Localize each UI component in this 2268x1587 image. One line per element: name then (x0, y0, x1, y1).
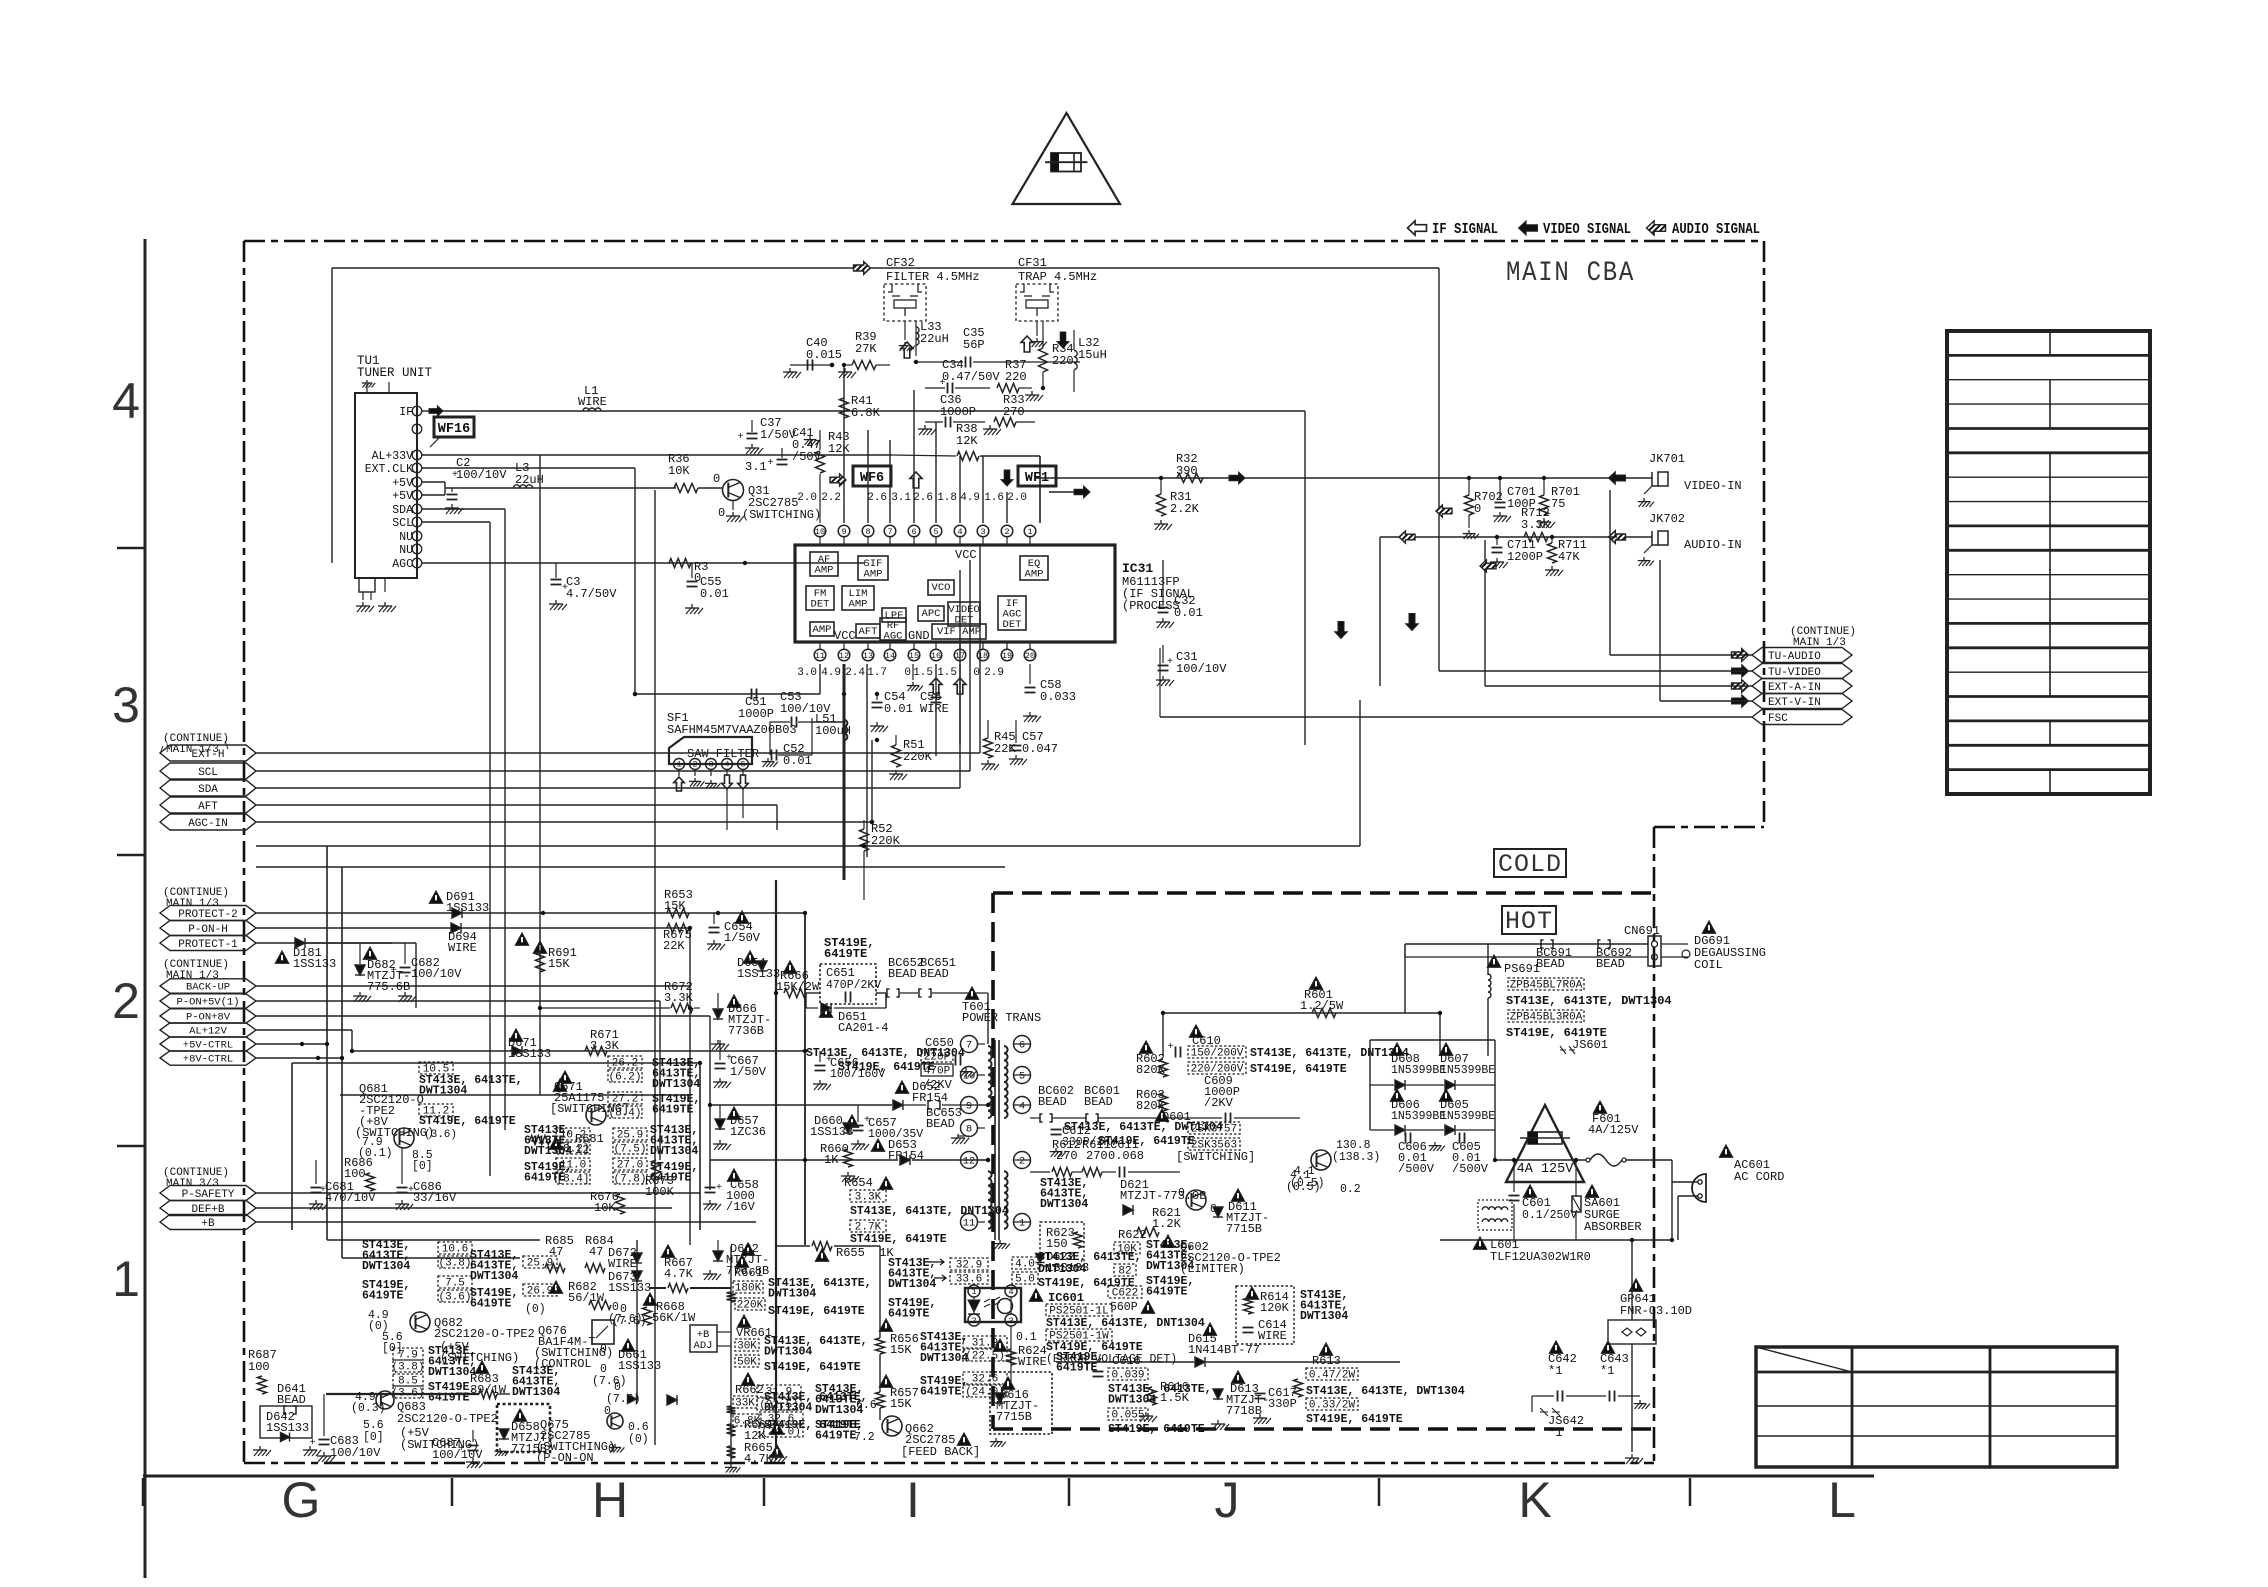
svg-text:6419TE: 6419TE (815, 1430, 857, 1443)
svg-text:4: 4 (1008, 1287, 1013, 1297)
svg-text:32.6: 32.6 (972, 1374, 998, 1386)
svg-text:SCL: SCL (198, 767, 218, 779)
svg-text:BEAD: BEAD (1536, 957, 1565, 971)
svg-text:2.9: 2.9 (984, 667, 1004, 679)
svg-text:+: + (940, 378, 946, 389)
svg-text:+5V: +5V (392, 477, 413, 490)
svg-text:180K: 180K (735, 1283, 762, 1295)
svg-text:ST413E, 6413TE, DWT1304: ST413E, 6413TE, DWT1304 (1306, 1385, 1465, 1398)
svg-text:COIL: COIL (1694, 958, 1723, 972)
svg-text:CF31: CF31 (1018, 256, 1047, 270)
svg-text:470/10V: 470/10V (325, 1191, 376, 1205)
svg-text:DET: DET (811, 599, 830, 611)
svg-text:0.047: 0.047 (1022, 742, 1058, 756)
svg-text:C651: C651 (826, 966, 855, 980)
svg-text:(3.8): (3.8) (391, 1362, 424, 1374)
svg-text:2: 2 (971, 1316, 976, 1326)
svg-text:(0): (0) (525, 1303, 546, 1316)
svg-text:0.33/2W: 0.33/2W (1309, 1400, 1356, 1412)
svg-text:DWT1304: DWT1304 (652, 1078, 700, 1091)
svg-text:16: 16 (931, 651, 941, 661)
svg-text:0.033: 0.033 (1040, 690, 1076, 704)
svg-text:(3.6): (3.6) (438, 1292, 471, 1304)
svg-text:(3.6): (3.6) (424, 1129, 457, 1141)
svg-text:JK701: JK701 (1649, 452, 1685, 466)
svg-text:3.1: 3.1 (745, 460, 767, 474)
svg-text:1: 1 (112, 1251, 140, 1307)
svg-text:47K: 47K (1558, 550, 1580, 564)
svg-text:11: 11 (815, 651, 825, 661)
svg-text:DWT1304: DWT1304 (419, 1085, 467, 1098)
svg-text:15K: 15K (548, 957, 570, 971)
svg-text:IF: IF (399, 406, 413, 419)
svg-text:56K/1W: 56K/1W (652, 1311, 696, 1325)
svg-text:22K: 22K (994, 742, 1016, 756)
svg-text:0.2: 0.2 (1340, 1183, 1361, 1196)
svg-text:SAFHM45M7VAAZ00B03: SAFHM45M7VAAZ00B03 (667, 723, 797, 737)
svg-text:5: 5 (741, 761, 746, 770)
svg-text:6419TE: 6419TE (1146, 1286, 1188, 1299)
svg-text:AMP: AMP (864, 569, 883, 581)
svg-text:DWT1304: DWT1304 (362, 1260, 410, 1273)
svg-text:VIDEO SIGNAL: VIDEO SIGNAL (1543, 222, 1631, 238)
svg-text:(6.2): (6.2) (608, 1072, 641, 1084)
svg-text:+: + (310, 1438, 316, 1449)
svg-text:33K: 33K (735, 1398, 755, 1410)
svg-text:R655 1K: R655 1K (836, 1246, 894, 1260)
svg-text:+B: +B (201, 1218, 215, 1230)
svg-text:15: 15 (909, 651, 919, 661)
svg-text:2.0: 2.0 (1007, 492, 1027, 504)
svg-text:1N414BT-77: 1N414BT-77 (1188, 1343, 1260, 1357)
svg-text:1SS133: 1SS133 (293, 957, 336, 971)
svg-text:VCC: VCC (955, 548, 977, 562)
svg-text:AC CORD: AC CORD (1734, 1170, 1784, 1184)
svg-text:6419TE: 6419TE (362, 1290, 404, 1303)
svg-text:+5V-CTRL: +5V-CTRL (183, 1040, 233, 1052)
svg-text:AUDIO SIGNAL: AUDIO SIGNAL (1672, 222, 1760, 238)
svg-text:TU-AUDIO: TU-AUDIO (1768, 651, 1821, 663)
svg-text:6.8K: 6.8K (851, 406, 881, 420)
svg-text:1N5399BE: 1N5399BE (1440, 1064, 1495, 1077)
svg-text:4.7K: 4.7K (744, 1452, 774, 1466)
svg-text:1: 1 (1027, 527, 1032, 537)
svg-text:AMP: AMP (849, 599, 868, 611)
svg-text:ST413E, 6413TE, DNT1304: ST413E, 6413TE, DNT1304 (850, 1205, 1009, 1218)
svg-text:15K: 15K (890, 1397, 912, 1411)
svg-text:*1: *1 (1600, 1364, 1614, 1378)
svg-text:3.1: 3.1 (891, 492, 911, 504)
svg-text:P-ON+8V: P-ON+8V (186, 1012, 231, 1024)
svg-text:DWT1304: DWT1304 (920, 1352, 968, 1365)
svg-text:POWER TRANS: POWER TRANS (962, 1011, 1041, 1025)
svg-text:4.9: 4.9 (960, 492, 980, 504)
svg-text:ABSORBER: ABSORBER (1584, 1220, 1642, 1234)
svg-text:2.0: 2.0 (797, 492, 817, 504)
svg-text:DWT1304: DWT1304 (650, 1145, 698, 1158)
svg-text:(SWITCHING): (SWITCHING) (742, 508, 821, 522)
svg-text:1N5399BE: 1N5399BE (1391, 1110, 1446, 1123)
svg-text:WIRE: WIRE (1018, 1355, 1047, 1369)
svg-text:1: 1 (971, 1287, 976, 1297)
svg-text:(0): (0) (628, 1433, 649, 1446)
svg-text:DWT1304: DWT1304 (470, 1270, 518, 1283)
svg-text:7.5: 7.5 (445, 1278, 465, 1290)
svg-text:ADJ: ADJ (694, 1340, 713, 1352)
svg-text:WIRE: WIRE (1258, 1329, 1287, 1343)
svg-text:3.0: 3.0 (797, 667, 817, 679)
svg-text:1SS133: 1SS133 (608, 1281, 651, 1295)
svg-text:(3.8): (3.8) (438, 1258, 471, 1270)
svg-text:BEAD: BEAD (1084, 1095, 1113, 1109)
svg-text:25.9: 25.9 (617, 1130, 643, 1142)
svg-text:100/160V: 100/160V (830, 1068, 885, 1081)
svg-text:1.5: 1.5 (913, 667, 933, 679)
svg-text:WF16: WF16 (438, 422, 470, 437)
svg-text:/500V: /500V (1398, 1162, 1435, 1176)
svg-text:(0.3): (0.3) (351, 1402, 386, 1415)
svg-text:0: 0 (1474, 502, 1481, 516)
svg-text:0.01: 0.01 (884, 702, 913, 716)
svg-text:270: 270 (1003, 405, 1025, 419)
svg-text:0.01: 0.01 (1174, 606, 1203, 620)
svg-text:1.5: 1.5 (937, 667, 957, 679)
svg-text:100K: 100K (645, 1185, 675, 1199)
svg-text:1: 1 (1019, 1218, 1025, 1230)
svg-text:(24.0): (24.0) (761, 1427, 801, 1439)
svg-text:EXT-A-IN: EXT-A-IN (1768, 682, 1821, 694)
svg-text:VIF AMP: VIF AMP (937, 626, 981, 638)
svg-text:DWT1304: DWT1304 (524, 1145, 572, 1158)
svg-text:R654: R654 (844, 1176, 873, 1190)
svg-text:7: 7 (966, 1040, 972, 1052)
svg-text:EXT.CLK: EXT.CLK (365, 463, 413, 476)
svg-text:DWT1304: DWT1304 (512, 1386, 560, 1399)
svg-text:1.2K: 1.2K (1152, 1217, 1182, 1231)
svg-text:BEAD: BEAD (1038, 1095, 1067, 1109)
svg-text:IC601: IC601 (1048, 1291, 1084, 1305)
svg-text:220: 220 (1052, 354, 1074, 368)
svg-text:7736B: 7736B (728, 1024, 764, 1038)
svg-text:560P: 560P (1110, 1301, 1138, 1314)
svg-text:R613: R613 (1312, 1354, 1341, 1368)
svg-text:/16V: /16V (726, 1200, 756, 1214)
svg-text:6419TE: 6419TE (824, 947, 867, 961)
svg-text:33/16V: 33/16V (413, 1191, 457, 1205)
svg-text:4.7/50V: 4.7/50V (566, 587, 617, 601)
svg-text:32.6: 32.6 (768, 1414, 794, 1426)
svg-text:G: G (282, 1472, 321, 1528)
svg-text:9: 9 (966, 1101, 972, 1113)
svg-text:12K: 12K (956, 434, 978, 448)
svg-text:JK702: JK702 (1649, 512, 1685, 526)
svg-text:(7.6): (7.6) (606, 1393, 641, 1406)
svg-text:(7.5): (7.5) (613, 1144, 646, 1156)
svg-text:2SC2120-O-TPE2: 2SC2120-O-TPE2 (397, 1412, 498, 1426)
svg-text:0: 0 (973, 667, 980, 679)
svg-text:COLD: COLD (1498, 850, 1562, 879)
svg-text:PROTECT-2: PROTECT-2 (178, 909, 237, 921)
svg-text:FSC: FSC (1768, 713, 1788, 725)
svg-text:[SWITCHING]: [SWITCHING] (1176, 1150, 1255, 1164)
svg-text:15K: 15K (890, 1343, 912, 1357)
svg-text:P-ON-H: P-ON-H (188, 924, 228, 936)
svg-text:AFT: AFT (198, 801, 218, 813)
svg-text:SDA: SDA (392, 504, 413, 517)
svg-text:4.9: 4.9 (821, 667, 841, 679)
svg-text:470P: 470P (924, 1066, 951, 1078)
svg-text:ST419E, 6419TE: ST419E, 6419TE (1250, 1063, 1347, 1076)
svg-text:4.7K: 4.7K (664, 1267, 694, 1281)
svg-text:ST419E, 6419TE: ST419E, 6419TE (768, 1305, 865, 1318)
svg-text:11: 11 (963, 1218, 976, 1230)
svg-text:/2KV: /2KV (1204, 1096, 1234, 1110)
svg-text:13: 13 (863, 651, 873, 661)
svg-text:(22.5): (22.5) (965, 1351, 1005, 1363)
svg-text:J: J (1215, 1472, 1240, 1528)
svg-text:C601: C601 (1522, 1196, 1551, 1210)
svg-text:100/10V: 100/10V (456, 468, 507, 482)
svg-text:(7.6): (7.6) (592, 1375, 627, 1388)
svg-text:1SS133: 1SS133 (1046, 1261, 1089, 1275)
svg-text:R661: R661 (734, 1266, 763, 1280)
svg-text:100/10V: 100/10V (411, 967, 462, 981)
svg-text:150: 150 (1046, 1237, 1068, 1251)
svg-text:1200P: 1200P (1507, 550, 1543, 564)
svg-text:0.01: 0.01 (783, 754, 812, 768)
svg-text:1N5399BE: 1N5399BE (1391, 1064, 1446, 1077)
svg-text:(PROCESS: (PROCESS (1122, 599, 1180, 613)
svg-text:AMP: AMP (813, 624, 832, 636)
svg-text:(P-ON-ON: (P-ON-ON (536, 1451, 594, 1465)
svg-text:P-SAFETY: P-SAFETY (182, 1189, 235, 1201)
svg-text:ST419E, 6419TE: ST419E, 6419TE (419, 1115, 516, 1128)
svg-text:ST413E, 6413TE, DWT1304: ST413E, 6413TE, DWT1304 (1506, 994, 1672, 1008)
svg-text:1SS133: 1SS133 (266, 1421, 309, 1435)
svg-text:TUNER UNIT: TUNER UNIT (357, 366, 433, 380)
svg-text:0.47/50V: 0.47/50V (942, 370, 1000, 384)
svg-text:AFT: AFT (859, 626, 878, 638)
svg-text:(7.8): (7.8) (613, 1174, 646, 1186)
svg-text:1.7: 1.7 (867, 667, 887, 679)
svg-text:7: 7 (887, 527, 892, 537)
svg-text:0: 0 (600, 1343, 607, 1356)
svg-text:DWT1304: DWT1304 (768, 1288, 816, 1301)
svg-text:20: 20 (1025, 651, 1035, 661)
svg-text:PS2501-1L: PS2501-1L (1049, 1306, 1108, 1318)
svg-text:33.6: 33.6 (956, 1274, 982, 1286)
svg-text:+: + (716, 1183, 722, 1194)
svg-text:2.6: 2.6 (913, 492, 933, 504)
svg-text:1.8: 1.8 (937, 492, 957, 504)
svg-text:C616: C616 (1112, 1354, 1141, 1368)
svg-text:0.039: 0.039 (1111, 1370, 1144, 1382)
svg-text:100/10V: 100/10V (330, 1446, 381, 1460)
svg-text:330P: 330P (1268, 1397, 1297, 1411)
svg-text:FNR-G3.10D: FNR-G3.10D (1620, 1304, 1692, 1318)
svg-text:0.1: 0.1 (1016, 1331, 1037, 1344)
svg-text:0: 0 (1178, 1187, 1185, 1200)
svg-text:+: + (738, 432, 744, 443)
svg-text:DWT1304: DWT1304 (888, 1278, 936, 1291)
svg-text:32.9: 32.9 (956, 1260, 982, 1272)
svg-text:4: 4 (1019, 1101, 1025, 1113)
svg-text:3: 3 (112, 677, 140, 733)
svg-text:2: 2 (1019, 1156, 1025, 1168)
svg-text:DWT1304: DWT1304 (764, 1346, 812, 1359)
svg-text:4: 4 (957, 527, 962, 537)
svg-text:CA201-4: CA201-4 (838, 1021, 888, 1035)
svg-text:220K: 220K (903, 750, 933, 764)
svg-text:/500V: /500V (1452, 1162, 1489, 1176)
svg-text:8: 8 (966, 1124, 972, 1136)
svg-text:1: 1 (677, 761, 682, 770)
svg-text:+: + (1168, 1042, 1174, 1053)
svg-text:WIRE: WIRE (920, 702, 949, 716)
svg-text:47: 47 (589, 1245, 603, 1259)
svg-text:ST413E, 6413TE, DNT1304: ST413E, 6413TE, DNT1304 (1250, 1047, 1409, 1060)
svg-text:WF6: WF6 (860, 471, 884, 486)
svg-text:4: 4 (112, 373, 140, 429)
svg-text:82: 82 (1118, 1266, 1131, 1278)
svg-text:6: 6 (1019, 1040, 1025, 1052)
svg-text:HOT: HOT (1505, 907, 1553, 936)
svg-text:470P/2KV: 470P/2KV (826, 979, 881, 992)
svg-text:1SS133: 1SS133 (737, 967, 780, 981)
svg-text:2: 2 (112, 973, 140, 1029)
svg-text:1.6: 1.6 (984, 492, 1004, 504)
svg-text:0.01: 0.01 (700, 587, 729, 601)
svg-text:BEAD: BEAD (1596, 957, 1625, 971)
svg-text:75: 75 (1551, 497, 1565, 511)
svg-text:2: 2 (693, 761, 698, 770)
svg-text:15uH: 15uH (1078, 348, 1107, 362)
svg-text:0: 0 (604, 1405, 611, 1418)
svg-text:5.0: 5.0 (1015, 1274, 1035, 1286)
svg-text:BEAD: BEAD (920, 967, 949, 981)
svg-text:ST419E, 6419TE: ST419E, 6419TE (764, 1361, 861, 1374)
svg-text:K: K (1518, 1472, 1551, 1528)
svg-text:2SC2120-O-TPE2: 2SC2120-O-TPE2 (434, 1327, 535, 1341)
svg-text:6419TE: 6419TE (470, 1298, 512, 1311)
svg-text:12: 12 (839, 651, 849, 661)
svg-text:AMP: AMP (815, 565, 834, 577)
svg-text:6419TE: 6419TE (920, 1386, 962, 1399)
svg-text:(0.5): (0.5) (1286, 1181, 1321, 1194)
svg-text:1/50V: 1/50V (724, 931, 761, 945)
svg-text:WIRE: WIRE (608, 1257, 637, 1271)
svg-text:3.3K: 3.3K (1521, 518, 1551, 532)
svg-text:WIRE: WIRE (578, 395, 607, 409)
svg-text:DWT1304: DWT1304 (1300, 1310, 1348, 1323)
svg-text:VCO: VCO (932, 582, 951, 594)
svg-text:10.6: 10.6 (442, 1244, 468, 1256)
svg-text:1/50V: 1/50V (730, 1065, 767, 1079)
svg-text:10K: 10K (1117, 1244, 1137, 1256)
svg-text:DET: DET (1003, 619, 1022, 631)
svg-text:ST419E, 6419TE: ST419E, 6419TE (1108, 1423, 1205, 1436)
svg-text:0.068: 0.068 (1108, 1149, 1144, 1163)
svg-text:5: 5 (1019, 1071, 1025, 1083)
svg-text:*1: *1 (1548, 1426, 1562, 1440)
svg-text:4A 125V: 4A 125V (1517, 1162, 1575, 1177)
svg-text:0.015: 0.015 (806, 348, 842, 362)
svg-text:120K: 120K (1260, 1301, 1290, 1315)
svg-text:100/10V: 100/10V (1176, 662, 1227, 676)
svg-text:+: + (459, 1444, 465, 1455)
svg-text:MAIN CBA: MAIN CBA (1506, 258, 1635, 289)
svg-text:4: 4 (725, 761, 730, 770)
svg-text:Q601: Q601 (1162, 1110, 1191, 1124)
svg-text:TU-VIDEO: TU-VIDEO (1768, 667, 1821, 679)
svg-text:(CONTROL: (CONTROL (534, 1357, 592, 1371)
svg-text:APC: APC (922, 608, 941, 620)
svg-text:[FEED BACK]: [FEED BACK] (901, 1445, 980, 1459)
svg-text:0: 0 (713, 472, 720, 486)
svg-text:2.2K: 2.2K (1170, 502, 1200, 516)
svg-text:3: 3 (980, 527, 985, 537)
svg-text:2.4: 2.4 (845, 667, 865, 679)
svg-text:L: L (1828, 1472, 1856, 1528)
svg-text:SDA: SDA (198, 784, 218, 796)
svg-text:DWT1304: DWT1304 (1108, 1394, 1156, 1407)
svg-text:AUDIO-IN: AUDIO-IN (1684, 538, 1742, 552)
svg-text:0.055: 0.055 (1111, 1410, 1144, 1422)
svg-text:26.2: 26.2 (612, 1058, 638, 1070)
svg-text:AL+12V: AL+12V (189, 1026, 228, 1038)
svg-text:3: 3 (709, 761, 714, 770)
svg-text:PS691: PS691 (1504, 962, 1540, 976)
svg-text:AMP: AMP (1025, 569, 1044, 581)
svg-text:150/200V: 150/200V (1191, 1048, 1244, 1060)
svg-text:FR154: FR154 (912, 1091, 948, 1105)
svg-text:[0]: [0] (412, 1160, 433, 1173)
svg-text:4.0: 4.0 (1015, 1259, 1035, 1271)
svg-text:15K/2W: 15K/2W (776, 980, 820, 994)
svg-text:PROTECT-1: PROTECT-1 (178, 939, 238, 951)
svg-text:6419TE: 6419TE (888, 1308, 930, 1321)
svg-text:AGC-IN: AGC-IN (188, 818, 228, 830)
svg-text:[SWITCHING]: [SWITCHING] (550, 1102, 629, 1116)
svg-text:AGC: AGC (884, 631, 903, 643)
svg-text:10K: 10K (594, 1201, 616, 1215)
svg-text:(138.3): (138.3) (1332, 1151, 1380, 1164)
svg-text:10: 10 (815, 527, 825, 537)
svg-text:IC31: IC31 (1122, 561, 1153, 576)
svg-text:100: 100 (344, 1167, 366, 1181)
svg-text:9: 9 (841, 527, 846, 537)
svg-text:I: I (906, 1472, 920, 1528)
svg-text:1ZC36: 1ZC36 (730, 1125, 766, 1139)
svg-text:AL+33V: AL+33V (372, 450, 414, 463)
svg-text:220K: 220K (737, 1300, 764, 1312)
svg-text:7715B: 7715B (996, 1410, 1032, 1424)
svg-text:2.7K: 2.7K (855, 1222, 882, 1234)
svg-text:AGC: AGC (392, 558, 413, 571)
svg-text:DWT1304: DWT1304 (1040, 1198, 1088, 1211)
svg-text:ZPB45BL7R0A: ZPB45BL7R0A (1510, 980, 1583, 992)
svg-text:12: 12 (963, 1156, 976, 1168)
svg-text:FILTER 4.5MHz: FILTER 4.5MHz (886, 270, 980, 284)
svg-text:+: + (768, 458, 774, 469)
svg-text:8: 8 (865, 527, 870, 537)
svg-text:50K: 50K (737, 1357, 757, 1369)
svg-text:7.2: 7.2 (854, 1431, 875, 1444)
svg-text:19: 19 (1002, 651, 1012, 661)
svg-text:WIRE: WIRE (448, 941, 477, 955)
svg-text:6: 6 (911, 527, 916, 537)
svg-text:1N5399BE: 1N5399BE (1440, 1110, 1495, 1123)
